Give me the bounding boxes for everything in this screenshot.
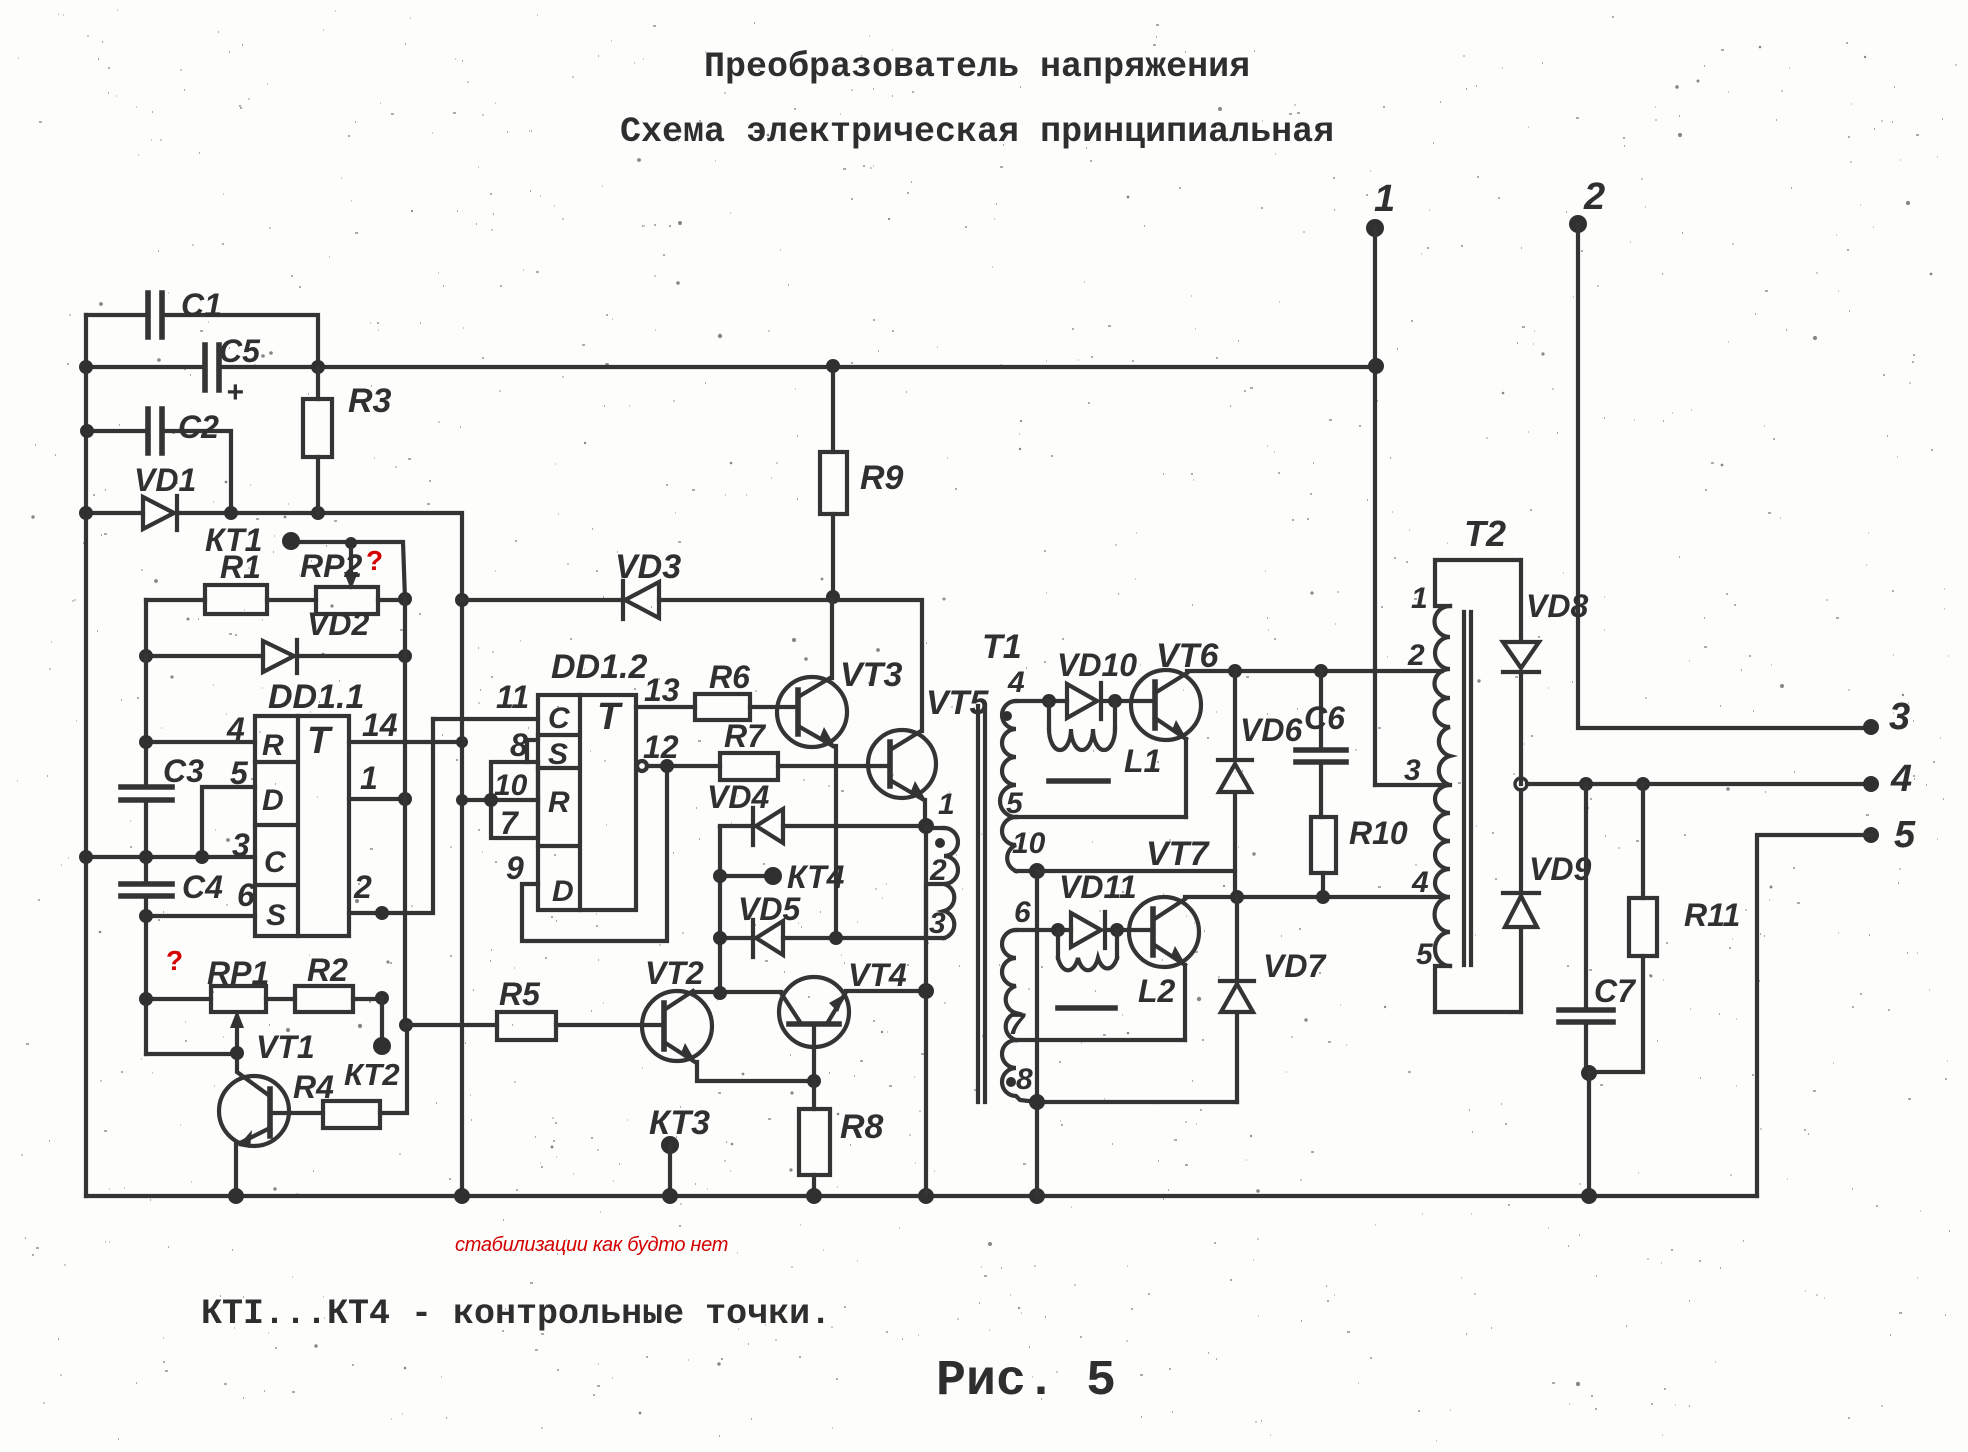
pin 2 DD1.1 — [349, 719, 433, 920]
TITLES — [620, 47, 1334, 152]
capacitor C2 — [148, 409, 219, 453]
transistor VT1 — [219, 1029, 323, 1196]
svg-text:R6: R6 — [709, 659, 750, 695]
node junction C6 top — [1314, 664, 1328, 678]
resistor R1 — [146, 549, 316, 614]
svg-text:?: ? — [166, 945, 183, 976]
svg-text:+: + — [226, 376, 244, 409]
transistor VT2 — [642, 955, 814, 1081]
node junction pin14/x462 — [456, 736, 468, 748]
svg-text:VT7: VT7 — [1146, 835, 1210, 873]
svg-text:VT3: VT3 — [840, 656, 902, 694]
svg-text:2: 2 — [353, 869, 372, 905]
resistor R7 — [720, 718, 890, 780]
pin 6 DD1.1 — [139, 877, 255, 923]
svg-text:стабилизации как будто нет: стабилизации как будто нет — [455, 1234, 728, 1256]
resistor R10 — [1311, 815, 1408, 897]
svg-text:3: 3 — [929, 907, 946, 940]
wire pin10 row to VD6 — [1037, 869, 1235, 873]
wire VT6 emitter to pin5 — [1016, 815, 1186, 819]
node junction RP2 right — [398, 592, 412, 606]
transformer T1 primary winding — [926, 788, 958, 940]
svg-text:R10: R10 — [1349, 815, 1408, 851]
transformer T2 winding — [1404, 582, 1450, 1012]
node junction VD2 right — [398, 649, 412, 663]
wire VT6 collector row — [1187, 669, 1442, 673]
wire vertical x462 VD1 to bus — [460, 600, 464, 1196]
svg-text:VD1: VD1 — [134, 462, 196, 498]
svg-text:Схема электрическая принципиал: Схема электрическая принципиальная — [620, 112, 1334, 152]
transformer T2 bottom — [1435, 1010, 1521, 1014]
IC DD1.1 — [255, 678, 364, 936]
node T1 pin1 — [918, 818, 934, 834]
node junction C5 left — [79, 360, 93, 374]
wire T1 pin6 row — [1016, 928, 1153, 932]
svg-text:VD6: VD6 — [1240, 712, 1302, 748]
diode VD3 — [615, 548, 681, 619]
resistor R11 — [1589, 784, 1740, 1072]
node junction VD2 left — [139, 649, 153, 663]
wire rectifier output to terminal 4 — [1527, 782, 1871, 786]
wire VD2 row — [146, 600, 405, 656]
resistor R4 — [293, 1025, 407, 1128]
diode VD8 — [1503, 560, 1588, 784]
svg-text:Т2: Т2 — [1464, 513, 1506, 554]
node junction bus x462 — [454, 1188, 470, 1204]
svg-text:8: 8 — [510, 727, 528, 763]
potentiometer RP1 — [139, 955, 295, 1053]
node junction bus VT1 — [228, 1188, 244, 1204]
node junction C7 branch — [1579, 777, 1593, 791]
svg-text:DD1.1: DD1.1 — [268, 678, 364, 716]
svg-text:S: S — [548, 738, 568, 771]
resistor R2 — [295, 952, 389, 1012]
diode VD7 — [1220, 897, 1327, 1102]
node junction VD8/VD9 ring — [1515, 778, 1527, 790]
inductor L2 — [1058, 930, 1176, 1009]
svg-text:VD9: VD9 — [1529, 851, 1591, 887]
svg-text:R: R — [548, 786, 570, 819]
svg-text:1: 1 — [938, 788, 955, 821]
capacitor C5 — [205, 333, 261, 409]
wire C2 row — [86, 431, 231, 513]
test point KT1 — [205, 522, 405, 599]
diode VD2 — [263, 606, 369, 673]
diode VD9 — [1503, 790, 1591, 1012]
transistor VT3 — [777, 600, 902, 938]
svg-text:C7: C7 — [1594, 973, 1637, 1009]
pin 9 DD1.2 feedback loop — [506, 766, 667, 941]
svg-text:L2: L2 — [1138, 973, 1176, 1009]
svg-text:7: 7 — [1008, 1008, 1026, 1041]
svg-text:VD2: VD2 — [307, 606, 369, 642]
svg-text:14: 14 — [362, 707, 398, 743]
svg-text:R: R — [262, 729, 284, 762]
diode VD4 — [707, 779, 783, 845]
svg-text:C: C — [548, 702, 571, 735]
test point KT3 — [649, 1104, 710, 1196]
node junction VD7 top — [1230, 890, 1244, 904]
capacitor C1 — [148, 287, 222, 337]
svg-text:D: D — [552, 875, 574, 908]
svg-text:10: 10 — [494, 769, 528, 802]
svg-text:3: 3 — [1889, 696, 1910, 738]
terminal 3 — [1863, 696, 1910, 738]
resistor R5 — [406, 976, 664, 1040]
potentiometer RP2 — [300, 548, 405, 614]
diode VD10 — [1057, 647, 1137, 719]
node junction C2/VD1 — [224, 506, 238, 520]
node junction bus KT3 — [662, 1188, 678, 1204]
node junction VD5 left — [713, 931, 727, 945]
svg-text:6: 6 — [237, 877, 255, 913]
wire bottom bus — [86, 1194, 1757, 1198]
resistor R3 — [303, 367, 392, 513]
svg-text:VT2: VT2 — [645, 955, 704, 991]
BOTTOMTEXT — [201, 1234, 1116, 1410]
diode VD11 — [1059, 869, 1137, 948]
transformer T1 core — [978, 706, 985, 1102]
wire VT7 collector row to T2 pin4 — [1185, 895, 1442, 899]
svg-text:C4: C4 — [182, 869, 223, 905]
svg-text:T: T — [307, 720, 333, 762]
svg-text:12: 12 — [643, 729, 679, 765]
pin 12 DD1.2 with bubble — [637, 729, 720, 773]
svg-text:C1: C1 — [181, 287, 222, 323]
transformer T1 winding 7-8 — [1002, 1040, 1037, 1102]
node junction VT3 emitter/VD5 — [829, 931, 843, 945]
transistor VT4 — [779, 957, 907, 1088]
test point KT2 — [344, 998, 400, 1092]
transformer T1 winding 4-5 — [1000, 666, 1025, 820]
svg-text:VD7: VD7 — [1263, 948, 1327, 984]
resistor R6 — [695, 659, 798, 720]
svg-text:R8: R8 — [840, 1108, 884, 1146]
svg-text:1: 1 — [360, 760, 378, 796]
pin 13 DD1.2 — [636, 672, 695, 708]
svg-text:R2: R2 — [307, 952, 348, 988]
svg-text:1: 1 — [1411, 582, 1428, 615]
svg-text:5: 5 — [230, 755, 249, 791]
node junction VD6 top — [1228, 664, 1242, 678]
inductor L1 — [1049, 701, 1161, 781]
transistor VT5 — [868, 684, 989, 826]
svg-text:8: 8 — [1016, 1063, 1033, 1096]
wire T2 pin3 tap to node1 — [1375, 783, 1450, 787]
wire C1 row — [86, 315, 318, 367]
node junction VD10 right — [1108, 694, 1122, 708]
node junction C5/R3 — [311, 360, 325, 374]
wire VD1 row — [86, 513, 462, 600]
capacitor C7 — [1559, 784, 1637, 1073]
node junction VD10 left — [1042, 694, 1056, 708]
pins 10/7 box DD1.2 — [456, 762, 538, 841]
svg-text:C3: C3 — [163, 753, 204, 789]
svg-text:4: 4 — [1007, 666, 1025, 699]
node junction VD3 left — [455, 593, 469, 607]
svg-text:R3: R3 — [348, 382, 392, 420]
diode VD5 — [738, 891, 801, 957]
node 1 terminal — [1366, 178, 1395, 785]
pin 1 DD1.1 — [349, 760, 412, 806]
svg-text:C5: C5 — [219, 333, 261, 369]
transformer T2 top — [1435, 560, 1519, 606]
svg-text:4: 4 — [1890, 758, 1912, 800]
svg-text:VD4: VD4 — [707, 779, 769, 815]
node junction bus C7 — [1581, 1188, 1597, 1204]
capacitor C4 — [121, 869, 223, 905]
svg-text:КТ3: КТ3 — [649, 1104, 710, 1142]
svg-text:3: 3 — [232, 827, 250, 863]
svg-text:C2: C2 — [178, 409, 219, 445]
svg-text:R5: R5 — [499, 976, 541, 1012]
svg-text:6: 6 — [1014, 896, 1031, 929]
svg-text:C6: C6 — [1304, 700, 1345, 736]
wire vertical x405 RP2 to R5 row — [403, 599, 407, 1025]
svg-text:R1: R1 — [220, 549, 261, 585]
pin 5 DD1.1 — [202, 755, 255, 857]
node junction C5 line / node1 — [1368, 358, 1384, 374]
wire T1 pin4 row — [1016, 699, 1155, 703]
wire VT1 base row — [146, 1052, 237, 1056]
svg-text:R7: R7 — [724, 718, 767, 754]
svg-text:9: 9 — [506, 850, 524, 886]
wire left bus vertical — [84, 315, 88, 1196]
node junction R5 row — [399, 1018, 413, 1032]
wire VD4 row — [720, 826, 926, 993]
wire T1 pin8 bottom row — [1037, 1100, 1237, 1104]
svg-text:RP2: RP2 — [300, 548, 362, 584]
svg-text:VT1: VT1 — [256, 1029, 315, 1065]
svg-text:DD1.2: DD1.2 — [551, 648, 647, 686]
svg-text:R11: R11 — [1684, 897, 1740, 933]
pin 14 DD1.1 — [349, 707, 462, 743]
node junction VD11 right — [1110, 923, 1124, 937]
node junction VD1 left — [79, 506, 93, 520]
svg-text:3: 3 — [1404, 754, 1421, 787]
wire terminal5 to bus — [1757, 835, 1871, 1196]
node 2 terminal — [1569, 176, 1871, 728]
svg-text:1: 1 — [1374, 178, 1395, 220]
wire VT2/VT4 collector row — [693, 991, 926, 992]
node junction R11 branch — [1636, 777, 1650, 791]
svg-text:VD8: VD8 — [1526, 588, 1588, 624]
terminal 4 — [1863, 758, 1912, 800]
pin 3 DD1.1 — [79, 827, 255, 864]
svg-text:7: 7 — [500, 805, 520, 841]
resistor R9 — [820, 359, 904, 596]
test point KT4 — [713, 859, 845, 895]
wire left branch vertical x146 — [144, 656, 148, 1054]
svg-text:5: 5 — [1894, 814, 1916, 856]
svg-text:VD5: VD5 — [738, 891, 801, 927]
wire VT7 emitter to pin7 — [1016, 1038, 1185, 1042]
node junction bus x1037 — [1029, 1188, 1045, 1204]
node junction bus x926 — [918, 1188, 934, 1204]
IC DD1.2 — [538, 648, 647, 910]
node T1 pin10 — [1029, 863, 1045, 879]
resistor R8 — [799, 1081, 884, 1196]
svg-text:КТ4: КТ4 — [787, 859, 845, 895]
node junction bus R8 — [806, 1188, 822, 1204]
node junction VD11 left — [1051, 923, 1065, 937]
svg-text:VD10: VD10 — [1057, 647, 1137, 683]
terminal 5 — [1863, 814, 1916, 856]
transistor VT6 — [1131, 637, 1219, 817]
svg-text:C: C — [264, 846, 287, 879]
svg-text:КТI...КТ4 - контрольные точки.: КТI...КТ4 - контрольные точки. — [201, 1294, 831, 1334]
svg-text:11: 11 — [496, 679, 529, 715]
capacitor C6 — [1296, 671, 1346, 817]
transformer T1 winding 6-7 — [1002, 896, 1031, 1041]
svg-text:5: 5 — [1416, 938, 1434, 971]
svg-text:Т1: Т1 — [982, 628, 1022, 666]
svg-text:T: T — [597, 696, 623, 738]
svg-text:2: 2 — [1583, 176, 1605, 218]
node junction x720/collector row — [713, 986, 727, 1000]
node junction C2 left — [80, 424, 94, 438]
svg-text:VT4: VT4 — [848, 957, 907, 993]
svg-text:D: D — [262, 784, 284, 817]
svg-text:Преобразователь напряжения: Преобразователь напряжения — [704, 47, 1250, 87]
wire x926 vertical VT5 emitter to bus — [924, 826, 928, 1196]
wire C5 row long line — [86, 365, 1377, 369]
svg-text:S: S — [266, 899, 286, 932]
pin 8 DD1.2 — [510, 727, 538, 763]
svg-text:Рис. 5: Рис. 5 — [936, 1353, 1116, 1410]
svg-text:VD11: VD11 — [1059, 869, 1137, 905]
node junction C7/R11 bottom — [1581, 1065, 1597, 1081]
diode VD6 — [1218, 671, 1302, 897]
transformer T1 winding 5-10 — [1002, 817, 1046, 871]
svg-text:2: 2 — [1407, 639, 1425, 672]
svg-text:13: 13 — [644, 672, 680, 708]
node junction VD3/R9 — [826, 590, 840, 604]
diode VD1 — [134, 462, 196, 530]
wire C7 bottom to bus — [1587, 1073, 1591, 1196]
node junction R10 bottom — [1316, 890, 1330, 904]
wire VD5 row — [720, 936, 944, 940]
node junction pin8 — [1029, 1094, 1045, 1110]
svg-text:КТ2: КТ2 — [344, 1057, 400, 1092]
svg-text:R4: R4 — [293, 1069, 334, 1105]
wire x1037 vertical — [1035, 871, 1039, 1196]
capacitor C3 — [121, 753, 204, 800]
wire VD3 row — [462, 600, 922, 731]
svg-text:L1: L1 — [1124, 743, 1161, 779]
svg-text:4: 4 — [226, 711, 245, 747]
svg-text:R9: R9 — [860, 459, 904, 497]
svg-text:10: 10 — [1012, 827, 1046, 860]
svg-text:VD3: VD3 — [615, 548, 681, 586]
pin 11 DD1.2 — [433, 679, 538, 719]
svg-text:2: 2 — [929, 854, 947, 887]
transformer T2 core — [1464, 612, 1471, 965]
transistor VT7 — [1129, 835, 1210, 1040]
svg-text:4: 4 — [1411, 866, 1429, 899]
svg-text:RP1: RP1 — [207, 955, 269, 991]
node junction R3/VD1 — [311, 506, 325, 520]
pin 4 DD1.1 — [139, 711, 255, 749]
svg-text:?: ? — [366, 545, 383, 576]
node junction x926 collector row — [918, 983, 934, 999]
